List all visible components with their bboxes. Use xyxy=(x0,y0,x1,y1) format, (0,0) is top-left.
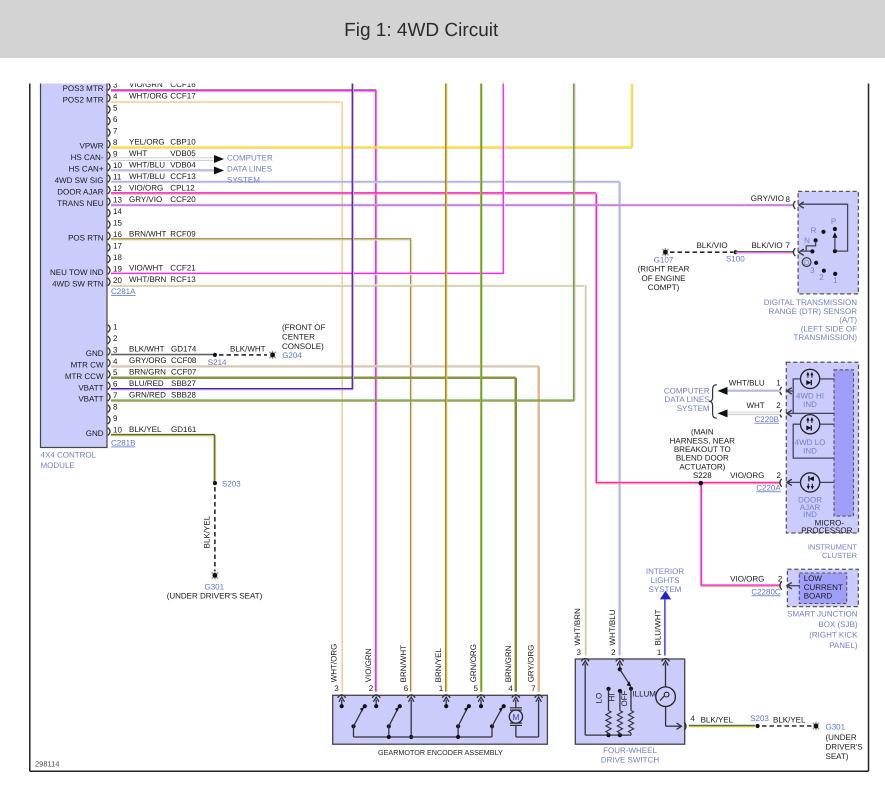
svg-text:SBB28: SBB28 xyxy=(171,391,196,400)
svg-text:CCF13: CCF13 xyxy=(170,172,196,181)
svg-text:C2280C: C2280C xyxy=(751,587,781,596)
svg-text:(LEFT SIDE OF: (LEFT SIDE OF xyxy=(801,324,857,333)
svg-text:WHT/BLU: WHT/BLU xyxy=(129,172,165,181)
svg-text:2: 2 xyxy=(611,648,616,657)
svg-text:S203: S203 xyxy=(750,714,769,723)
svg-text:CLUSTER: CLUSTER xyxy=(822,551,858,560)
svg-text:1: 1 xyxy=(439,684,444,693)
svg-text:18: 18 xyxy=(113,253,122,262)
svg-text:S228: S228 xyxy=(693,471,712,480)
svg-text:4: 4 xyxy=(508,684,513,693)
svg-text:GND: GND xyxy=(86,429,104,438)
svg-text:RANGE (DTR) SENSOR: RANGE (DTR) SENSOR xyxy=(769,307,858,316)
svg-text:CURRENT: CURRENT xyxy=(804,583,843,592)
svg-text:12: 12 xyxy=(113,184,122,193)
svg-text:10: 10 xyxy=(113,425,122,434)
svg-text:4WD SW RTN: 4WD SW RTN xyxy=(52,279,104,288)
svg-text:BLU/RED: BLU/RED xyxy=(129,379,164,388)
svg-text:G301: G301 xyxy=(826,722,846,731)
svg-text:SEAT): SEAT) xyxy=(826,752,849,761)
svg-text:1: 1 xyxy=(833,276,838,285)
svg-text:BOX (SJB): BOX (SJB) xyxy=(818,620,857,629)
svg-text:WHT/ORG: WHT/ORG xyxy=(129,91,168,100)
svg-text:2: 2 xyxy=(369,684,374,693)
svg-text:LOW: LOW xyxy=(804,574,823,583)
svg-text:(UNDER DRIVER'S SEAT): (UNDER DRIVER'S SEAT) xyxy=(167,591,263,600)
svg-text:6: 6 xyxy=(113,115,118,124)
svg-text:8: 8 xyxy=(113,138,118,147)
svg-text:HS CAN+: HS CAN+ xyxy=(69,165,104,174)
svg-text:POS RTN: POS RTN xyxy=(68,233,104,242)
svg-text:SMART JUNCTION: SMART JUNCTION xyxy=(787,610,858,619)
svg-text:WHT/BRN: WHT/BRN xyxy=(573,608,582,646)
svg-text:BLU/WHT: BLU/WHT xyxy=(654,609,663,645)
svg-text:LIGHTS: LIGHTS xyxy=(651,576,680,585)
svg-text:S100: S100 xyxy=(726,255,745,264)
svg-text:11: 11 xyxy=(113,172,122,181)
svg-text:2: 2 xyxy=(113,334,118,343)
svg-text:3: 3 xyxy=(334,684,339,693)
svg-text:GEARMOTOR ENCODER ASSEMBLY: GEARMOTOR ENCODER ASSEMBLY xyxy=(378,748,503,757)
svg-text:4X4 CONTROL: 4X4 CONTROL xyxy=(41,451,97,460)
svg-text:(MAIN: (MAIN xyxy=(691,428,714,437)
svg-text:GD174: GD174 xyxy=(171,345,197,354)
svg-text:OFF: OFF xyxy=(620,690,629,706)
svg-text:WHT/BLU: WHT/BLU xyxy=(729,379,765,388)
svg-text:INTERIOR: INTERIOR xyxy=(646,567,684,576)
svg-text:BLK/YEL: BLK/YEL xyxy=(129,425,162,434)
svg-text:BRN/GRN: BRN/GRN xyxy=(129,368,166,377)
svg-text:20: 20 xyxy=(113,276,122,285)
svg-text:(RIGHT KICK: (RIGHT KICK xyxy=(809,631,858,640)
svg-text:VBATT: VBATT xyxy=(78,395,103,404)
svg-text:1: 1 xyxy=(776,379,781,388)
svg-text:G107: G107 xyxy=(654,255,674,264)
svg-text:CBP10: CBP10 xyxy=(170,137,196,146)
svg-text:(RIGHT REAR: (RIGHT REAR xyxy=(638,265,690,274)
svg-text:WHT: WHT xyxy=(746,401,764,410)
svg-text:PROCESSOR: PROCESSOR xyxy=(801,526,852,535)
svg-text:GND: GND xyxy=(86,349,104,358)
svg-text:10: 10 xyxy=(113,161,122,170)
svg-text:4: 4 xyxy=(113,357,118,366)
svg-text:GRN/RED: GRN/RED xyxy=(129,391,166,400)
svg-text:2: 2 xyxy=(777,471,782,480)
svg-text:4WD SW SIG: 4WD SW SIG xyxy=(55,176,104,185)
svg-text:SYSTEM: SYSTEM xyxy=(649,585,682,594)
svg-text:9: 9 xyxy=(113,414,118,423)
svg-text:BRN/YEL: BRN/YEL xyxy=(434,648,443,683)
svg-text:BLEND DOOR: BLEND DOOR xyxy=(676,454,729,463)
svg-text:BLK/YEL: BLK/YEL xyxy=(701,715,734,724)
svg-text:WHT/BLU: WHT/BLU xyxy=(129,160,165,169)
svg-text:GRY/ORG: GRY/ORG xyxy=(527,645,536,683)
svg-text:S203: S203 xyxy=(222,479,241,488)
svg-text:298114: 298114 xyxy=(35,760,59,769)
svg-text:WHT/BLU: WHT/BLU xyxy=(608,609,617,645)
svg-text:C220A: C220A xyxy=(756,483,781,492)
svg-text:BRN/WHT: BRN/WHT xyxy=(129,229,166,238)
svg-text:SYSTEM: SYSTEM xyxy=(227,176,260,185)
svg-text:8: 8 xyxy=(786,195,791,204)
svg-text:6: 6 xyxy=(113,380,118,389)
svg-text:DOOR AJAR: DOOR AJAR xyxy=(57,188,103,197)
svg-text:COMPUTER: COMPUTER xyxy=(227,153,273,162)
svg-text:VIO/WHT: VIO/WHT xyxy=(129,264,163,273)
svg-text:14: 14 xyxy=(113,207,122,216)
svg-text:RCF13: RCF13 xyxy=(170,275,196,284)
svg-text:BRN/WHT: BRN/WHT xyxy=(399,645,408,682)
svg-text:POS3 MTR: POS3 MTR xyxy=(63,84,104,93)
svg-text:7: 7 xyxy=(785,241,790,250)
svg-text:CCF20: CCF20 xyxy=(170,195,196,204)
svg-text:HI: HI xyxy=(608,694,617,702)
svg-text:2: 2 xyxy=(776,401,781,410)
svg-text:BLK/YEL: BLK/YEL xyxy=(203,515,212,548)
svg-text:G204: G204 xyxy=(282,351,302,360)
svg-text:(UNDER: (UNDER xyxy=(826,733,857,742)
svg-text:5: 5 xyxy=(113,368,118,377)
svg-text:WHT: WHT xyxy=(129,149,147,158)
svg-text:N: N xyxy=(804,236,810,245)
svg-text:BOARD: BOARD xyxy=(804,592,833,601)
svg-text:RCF09: RCF09 xyxy=(170,229,196,238)
svg-text:7: 7 xyxy=(113,391,118,400)
svg-text:5: 5 xyxy=(113,103,118,112)
svg-text:19: 19 xyxy=(113,264,122,273)
svg-text:8: 8 xyxy=(113,403,118,412)
svg-text:5: 5 xyxy=(474,684,479,693)
svg-text:WHT/BRN: WHT/BRN xyxy=(129,275,167,284)
svg-text:2: 2 xyxy=(819,273,824,282)
svg-text:NEU TOW IND: NEU TOW IND xyxy=(50,268,104,277)
svg-text:BLK/WHT: BLK/WHT xyxy=(129,345,165,354)
svg-text:IND: IND xyxy=(803,446,817,455)
svg-text:VIO/ORG: VIO/ORG xyxy=(730,471,764,480)
svg-text:7: 7 xyxy=(531,684,536,693)
svg-text:9: 9 xyxy=(113,149,118,158)
svg-text:BLK/VIO: BLK/VIO xyxy=(696,241,727,250)
svg-text:IND: IND xyxy=(803,400,817,409)
svg-text:G301: G301 xyxy=(205,583,225,592)
svg-text:VDB04: VDB04 xyxy=(170,160,196,169)
svg-text:GD161: GD161 xyxy=(171,425,197,434)
svg-text:GRY/VIO: GRY/VIO xyxy=(751,194,784,203)
svg-text:Fig 1: 4WD Circuit: Fig 1: 4WD Circuit xyxy=(344,20,499,41)
svg-text:CCF07: CCF07 xyxy=(171,368,197,377)
svg-text:CCF21: CCF21 xyxy=(170,264,196,273)
svg-text:16: 16 xyxy=(113,230,122,239)
svg-text:D: D xyxy=(804,258,810,267)
svg-text:PANEL): PANEL) xyxy=(829,641,858,650)
svg-text:COMPT): COMPT) xyxy=(648,283,680,292)
svg-text:C281B: C281B xyxy=(111,439,135,448)
svg-text:3: 3 xyxy=(577,648,582,657)
svg-text:TRANS NEU: TRANS NEU xyxy=(57,199,103,208)
svg-text:DIGITAL TRANSMISSION: DIGITAL TRANSMISSION xyxy=(764,298,857,307)
svg-text:FOUR-WHEEL: FOUR-WHEEL xyxy=(603,746,657,755)
svg-text:TRANSMISSION): TRANSMISSION) xyxy=(793,333,857,342)
svg-text:CCF17: CCF17 xyxy=(170,91,196,100)
svg-text:VIO/GRN: VIO/GRN xyxy=(364,648,373,682)
svg-text:6: 6 xyxy=(404,684,409,693)
svg-text:7: 7 xyxy=(113,126,118,135)
svg-text:CENTER: CENTER xyxy=(282,333,315,342)
svg-text:DATA LINES: DATA LINES xyxy=(665,395,710,404)
svg-text:VIO/ORG: VIO/ORG xyxy=(129,183,163,192)
svg-text:VPWR: VPWR xyxy=(80,142,104,151)
svg-text:SYSTEM: SYSTEM xyxy=(677,404,710,413)
svg-text:POS2 MTR: POS2 MTR xyxy=(63,96,104,105)
svg-text:1: 1 xyxy=(657,648,662,657)
svg-text:VBATT: VBATT xyxy=(78,383,103,392)
svg-text:BRN/GRN: BRN/GRN xyxy=(504,645,513,682)
svg-text:OF ENGINE: OF ENGINE xyxy=(641,274,685,283)
svg-text:MODULE: MODULE xyxy=(41,461,75,470)
svg-text:DRIVE SWITCH: DRIVE SWITCH xyxy=(601,756,659,765)
svg-text:YEL/ORG: YEL/ORG xyxy=(129,137,165,146)
svg-text:GRY/ORG: GRY/ORG xyxy=(129,356,167,365)
svg-text:COMPUTER: COMPUTER xyxy=(664,386,710,395)
svg-text:4: 4 xyxy=(690,714,695,723)
svg-text:BLK/VIO: BLK/VIO xyxy=(751,241,782,250)
svg-text:P: P xyxy=(831,217,836,226)
svg-text:BLK/YEL: BLK/YEL xyxy=(773,715,806,724)
svg-text:CCF08: CCF08 xyxy=(171,356,197,365)
svg-text:C281A: C281A xyxy=(111,287,136,296)
svg-text:HARNESS, NEAR: HARNESS, NEAR xyxy=(670,436,736,445)
svg-text:3: 3 xyxy=(113,345,118,354)
svg-text:GRY/VIO: GRY/VIO xyxy=(129,195,162,204)
svg-text:1: 1 xyxy=(113,322,118,331)
svg-text:ILLUM: ILLUM xyxy=(632,690,656,699)
svg-text:GRN/ORG: GRN/ORG xyxy=(469,644,478,682)
svg-text:3: 3 xyxy=(810,266,815,275)
svg-text:SBB27: SBB27 xyxy=(171,379,196,388)
svg-text:(A/T): (A/T) xyxy=(839,316,857,325)
svg-text:M: M xyxy=(512,712,519,722)
svg-text:13: 13 xyxy=(113,195,122,204)
svg-text:(FRONT OF: (FRONT OF xyxy=(282,323,326,332)
svg-text:MTR CCW: MTR CCW xyxy=(65,372,104,381)
svg-text:BLK/WHT: BLK/WHT xyxy=(230,344,266,353)
svg-text:4: 4 xyxy=(113,92,118,101)
svg-text:BREAKOUT TO: BREAKOUT TO xyxy=(674,445,731,454)
svg-text:DRIVER'S: DRIVER'S xyxy=(826,743,863,752)
svg-text:CPL12: CPL12 xyxy=(170,183,195,192)
svg-text:15: 15 xyxy=(113,218,122,227)
svg-text:2: 2 xyxy=(778,575,783,584)
svg-text:VIO/ORG: VIO/ORG xyxy=(730,575,764,584)
svg-text:LO: LO xyxy=(594,693,603,704)
svg-text:WHT/ORG: WHT/ORG xyxy=(330,644,339,683)
svg-text:R: R xyxy=(811,226,817,235)
svg-text:MTR CW: MTR CW xyxy=(71,360,104,369)
svg-text:DATA LINES: DATA LINES xyxy=(227,165,272,174)
svg-text:ACTUATOR): ACTUATOR) xyxy=(679,462,725,471)
svg-text:17: 17 xyxy=(113,241,122,250)
svg-text:VDB05: VDB05 xyxy=(170,149,196,158)
svg-text:CONSOLE): CONSOLE) xyxy=(282,342,324,351)
svg-text:C220B: C220B xyxy=(755,415,779,424)
svg-text:HS CAN-: HS CAN- xyxy=(71,153,104,162)
